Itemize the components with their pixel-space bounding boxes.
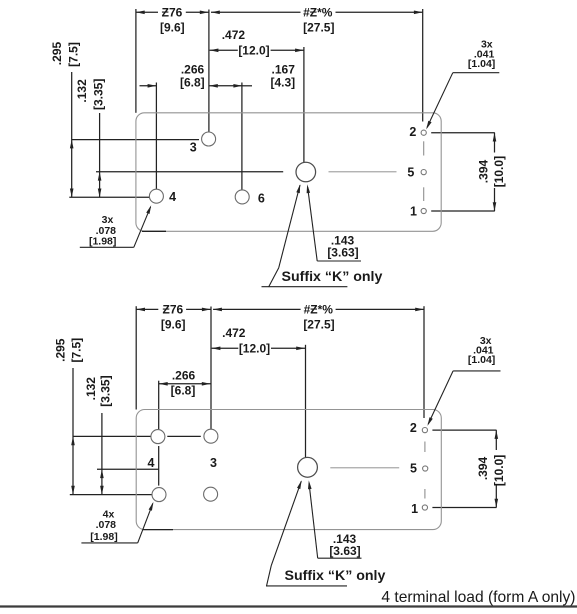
- svg-text:[12.0]: [12.0]: [239, 342, 270, 356]
- svg-text:#Ƶ*%: #Ƶ*%: [304, 303, 334, 317]
- svg-text:.295: .295: [50, 41, 64, 65]
- svg-text:Suffix “K” only: Suffix “K” only: [285, 568, 386, 584]
- svg-text:4: 4: [169, 190, 176, 204]
- svg-text:5: 5: [407, 165, 414, 179]
- svg-text:5: 5: [410, 461, 417, 475]
- svg-text:[10.0]: [10.0]: [492, 455, 506, 486]
- svg-text:[3.35]: [3.35]: [98, 375, 112, 406]
- svg-text:[1.98]: [1.98]: [89, 235, 116, 247]
- svg-text:[1.04]: [1.04]: [468, 58, 495, 70]
- svg-text:[27.5]: [27.5]: [303, 21, 334, 35]
- svg-text:[6.8]: [6.8]: [171, 384, 196, 398]
- svg-text:2: 2: [409, 125, 416, 139]
- svg-text:3: 3: [190, 141, 197, 155]
- svg-text:[7.5]: [7.5]: [67, 42, 81, 67]
- svg-text:1: 1: [411, 502, 418, 516]
- svg-text:4 terminal load (form A only): 4 terminal load (form A only): [381, 589, 575, 606]
- svg-text:6: 6: [258, 191, 265, 205]
- svg-text:[9.6]: [9.6]: [161, 318, 186, 332]
- svg-text:.394: .394: [477, 159, 491, 183]
- svg-text:1: 1: [410, 204, 417, 218]
- svg-text:Suffix “K” only: Suffix “K” only: [282, 269, 383, 285]
- svg-text:.132: .132: [75, 79, 89, 103]
- svg-text:[3.63]: [3.63]: [329, 544, 360, 558]
- svg-text:[12.0]: [12.0]: [238, 44, 269, 58]
- svg-text:Ƶ76: Ƶ76: [162, 5, 183, 19]
- svg-text:4: 4: [148, 456, 155, 470]
- svg-text:[3.63]: [3.63]: [327, 246, 358, 260]
- svg-text:[1.98]: [1.98]: [90, 531, 117, 543]
- svg-text:.266: .266: [172, 369, 196, 383]
- svg-text:.132: .132: [84, 377, 98, 401]
- svg-text:[4.3]: [4.3]: [270, 75, 295, 89]
- svg-text:.394: .394: [476, 456, 490, 480]
- svg-text:[7.5]: [7.5]: [70, 338, 84, 363]
- svg-text:[27.5]: [27.5]: [303, 318, 334, 332]
- svg-text:#Ƶ*%: #Ƶ*%: [303, 5, 333, 19]
- svg-text:[9.6]: [9.6]: [160, 21, 185, 35]
- svg-text:.078: .078: [96, 519, 117, 531]
- svg-text:[10.0]: [10.0]: [492, 156, 506, 187]
- svg-text:[1.04]: [1.04]: [468, 354, 495, 366]
- svg-text:.472: .472: [222, 326, 246, 340]
- svg-text:.295: .295: [54, 338, 68, 362]
- svg-text:2: 2: [410, 421, 417, 435]
- svg-text:[6.8]: [6.8]: [180, 75, 205, 89]
- svg-text:.472: .472: [222, 28, 246, 42]
- svg-text:[3.35]: [3.35]: [91, 79, 105, 110]
- svg-text:3: 3: [210, 456, 217, 470]
- svg-text:Ƶ76: Ƶ76: [163, 303, 184, 317]
